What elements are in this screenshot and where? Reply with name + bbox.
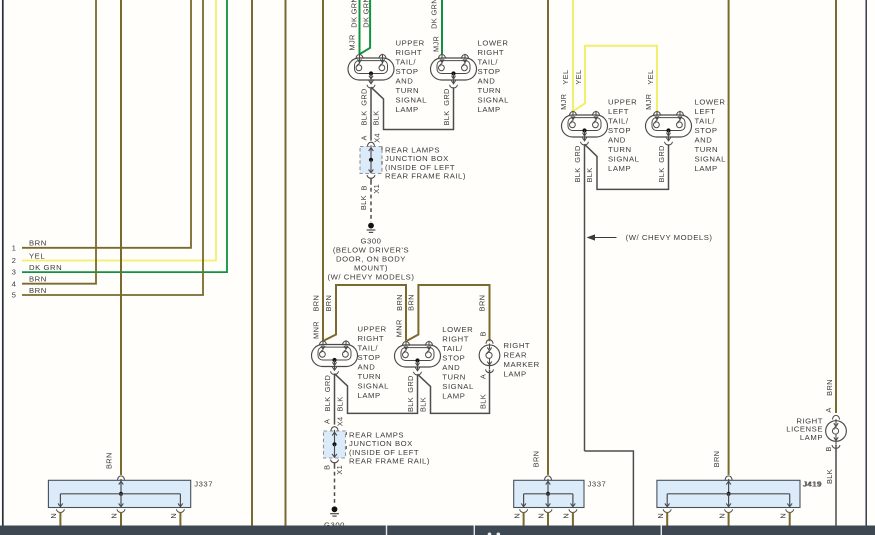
svg-text:STOP: STOP (442, 354, 465, 363)
svg-text:BLK: BLK (406, 397, 415, 412)
svg-text:LAMP: LAMP (695, 164, 718, 173)
svg-text:BLK: BLK (825, 469, 834, 484)
svg-text:B: B (479, 331, 488, 336)
svg-text:AND: AND (358, 363, 376, 372)
svg-text:LOWER: LOWER (695, 98, 726, 107)
svg-text:GRD: GRD (406, 375, 415, 392)
svg-text:LEFT: LEFT (695, 107, 716, 116)
svg-text:REAR FRAME RAIL): REAR FRAME RAIL) (349, 457, 430, 466)
svg-text:LAMP: LAMP (478, 105, 501, 114)
svg-text:TAIL/: TAIL/ (478, 58, 499, 67)
svg-text:YEL: YEL (561, 70, 570, 85)
svg-text:BRN: BRN (478, 295, 487, 312)
svg-text:X1: X1 (372, 184, 381, 194)
svg-text:MJR: MJR (644, 94, 653, 110)
svg-text:BLK: BLK (479, 394, 488, 409)
svg-text:LAMP: LAMP (396, 105, 419, 114)
svg-text:BRN: BRN (29, 239, 47, 248)
svg-text:BRN: BRN (324, 295, 333, 312)
svg-text:AND: AND (396, 77, 414, 86)
svg-text:TAIL/: TAIL/ (358, 344, 379, 353)
svg-text:YEL: YEL (29, 251, 45, 260)
svg-text:GRD: GRD (442, 88, 451, 105)
svg-text:(W/ CHEVY MODELS): (W/ CHEVY MODELS) (626, 233, 713, 242)
svg-text:LAMP: LAMP (358, 391, 381, 400)
svg-text:SIGNAL: SIGNAL (608, 155, 640, 164)
svg-text:A: A (479, 374, 488, 379)
svg-text:BRN: BRN (29, 275, 47, 284)
svg-text:N: N (562, 513, 571, 519)
svg-text:2: 2 (12, 256, 17, 265)
svg-text:GRD: GRD (573, 145, 582, 162)
svg-text:AND: AND (478, 77, 496, 86)
svg-text:BRN: BRN (712, 451, 721, 468)
svg-text:BRN: BRN (311, 295, 320, 312)
svg-text:STOP: STOP (695, 126, 718, 135)
svg-text:AND: AND (442, 363, 460, 372)
svg-text:AND: AND (608, 136, 626, 145)
svg-text:REAR LAMPS: REAR LAMPS (385, 146, 440, 155)
svg-text:DK GRN: DK GRN (350, 0, 359, 28)
svg-text:TURN: TURN (608, 145, 632, 154)
svg-text:X1: X1 (335, 465, 344, 475)
svg-text:A: A (360, 135, 369, 140)
svg-text:N: N (169, 513, 178, 519)
svg-text:BRN: BRN (105, 452, 114, 469)
svg-text:AND: AND (695, 136, 713, 145)
svg-text:N: N (656, 513, 665, 519)
svg-text:(BELOW DRIVER'S: (BELOW DRIVER'S (333, 246, 409, 255)
svg-text:MJR: MJR (559, 94, 568, 110)
svg-text:BLK: BLK (585, 167, 594, 182)
svg-text:YEL: YEL (574, 70, 583, 85)
svg-text:G300: G300 (360, 237, 381, 246)
svg-text:(INSIDE OF LEFT: (INSIDE OF LEFT (349, 448, 419, 457)
svg-text:LAMP: LAMP (800, 433, 823, 442)
svg-text:SIGNAL: SIGNAL (695, 155, 727, 164)
svg-text:RIGHT: RIGHT (442, 335, 469, 344)
svg-text:RIGHT: RIGHT (504, 341, 531, 350)
svg-text:N: N (537, 513, 546, 519)
svg-text:BLK: BLK (336, 396, 345, 411)
svg-text:GRD: GRD (657, 145, 666, 162)
svg-text:LAMP: LAMP (608, 164, 631, 173)
svg-text:RIGHT: RIGHT (358, 334, 385, 343)
svg-text:LOWER: LOWER (442, 325, 473, 334)
svg-text:TAIL/: TAIL/ (608, 117, 629, 126)
svg-text:BRN: BRN (825, 379, 834, 396)
svg-text:JUNCTION BOX: JUNCTION BOX (385, 154, 449, 163)
svg-text:DK GRN: DK GRN (362, 0, 371, 28)
svg-text:TAIL/: TAIL/ (396, 58, 417, 67)
svg-text:BRN: BRN (406, 294, 415, 311)
svg-text:DK GRN: DK GRN (430, 0, 439, 29)
svg-text:N: N (110, 513, 119, 519)
svg-text:STOP: STOP (478, 67, 501, 76)
svg-text:SIGNAL: SIGNAL (358, 382, 390, 391)
svg-text:TURN: TURN (478, 86, 502, 95)
svg-text:MJR: MJR (348, 34, 357, 50)
svg-text:4: 4 (12, 279, 17, 288)
svg-text:BRN: BRN (29, 286, 47, 295)
svg-text:DK GRN: DK GRN (29, 263, 62, 272)
svg-text:N: N (512, 513, 521, 519)
svg-text:BLK: BLK (573, 167, 582, 182)
svg-text:BLK: BLK (360, 110, 369, 125)
svg-text:GRD: GRD (323, 375, 332, 392)
svg-text:TURN: TURN (695, 145, 719, 154)
svg-text:REAR: REAR (504, 351, 528, 360)
svg-text:A: A (824, 407, 833, 412)
svg-text:SIGNAL: SIGNAL (396, 96, 428, 105)
svg-text:MOUNT): MOUNT) (354, 263, 388, 272)
svg-text:X4: X4 (336, 417, 345, 427)
svg-text:LAMP: LAMP (504, 370, 527, 379)
svg-text:GRD: GRD (360, 88, 369, 105)
svg-text:A: A (323, 419, 332, 424)
svg-text:LEFT: LEFT (608, 107, 629, 116)
svg-text:BLK: BLK (657, 167, 666, 182)
svg-text:TAIL/: TAIL/ (695, 117, 716, 126)
svg-text:JUNCTION BOX: JUNCTION BOX (349, 439, 413, 448)
svg-text:B: B (824, 446, 833, 451)
svg-text:RIGHT: RIGHT (396, 48, 423, 57)
svg-text:BLK: BLK (359, 195, 368, 210)
svg-text:J337: J337 (194, 480, 213, 489)
svg-text:TURN: TURN (442, 373, 466, 382)
svg-text:BLK: BLK (372, 110, 381, 125)
svg-text:TURN: TURN (358, 372, 382, 381)
svg-text:(INSIDE OF LEFT: (INSIDE OF LEFT (385, 163, 455, 172)
svg-text:TAIL/: TAIL/ (442, 344, 463, 353)
svg-text:TURN: TURN (396, 86, 420, 95)
svg-text:5: 5 (12, 291, 17, 300)
svg-text:B: B (323, 465, 332, 470)
svg-text:(W/ CHEVY MODELS): (W/ CHEVY MODELS) (328, 272, 415, 281)
svg-text:RIGHT: RIGHT (478, 48, 505, 57)
svg-text:REAR LAMPS: REAR LAMPS (349, 431, 404, 440)
svg-text:MNR: MNR (395, 319, 404, 337)
svg-text:REAR FRAME RAIL): REAR FRAME RAIL) (385, 172, 466, 181)
svg-text:X4: X4 (373, 133, 382, 143)
svg-text:BLK: BLK (442, 110, 451, 125)
svg-text:MNR: MNR (312, 321, 321, 339)
svg-text:J419: J419 (803, 480, 822, 489)
svg-text:3: 3 (12, 268, 17, 277)
svg-text:1: 1 (12, 243, 17, 252)
svg-text:N: N (49, 513, 58, 519)
svg-text:UPPER: UPPER (608, 98, 637, 107)
svg-text:N: N (717, 513, 726, 519)
svg-text:BLK: BLK (419, 397, 428, 412)
svg-text:N: N (778, 513, 787, 519)
svg-text:STOP: STOP (396, 67, 419, 76)
svg-text:MARKER: MARKER (504, 360, 540, 369)
svg-text:SIGNAL: SIGNAL (478, 96, 510, 105)
svg-text:B: B (360, 185, 369, 190)
svg-text:BLK: BLK (323, 396, 332, 411)
svg-text:J337: J337 (588, 480, 607, 489)
svg-text:BRN: BRN (532, 451, 541, 468)
svg-text:LAMP: LAMP (442, 392, 465, 401)
svg-text:SIGNAL: SIGNAL (442, 382, 474, 391)
svg-text:BRN: BRN (395, 294, 404, 311)
svg-text:DOOR, ON BODY: DOOR, ON BODY (336, 255, 406, 264)
svg-text:UPPER: UPPER (358, 325, 387, 334)
svg-text:STOP: STOP (358, 353, 381, 362)
svg-text:LOWER: LOWER (478, 39, 509, 48)
svg-text:MJR: MJR (431, 36, 440, 52)
svg-text:YEL: YEL (646, 70, 655, 85)
svg-text:STOP: STOP (608, 126, 631, 135)
svg-text:UPPER: UPPER (396, 39, 425, 48)
